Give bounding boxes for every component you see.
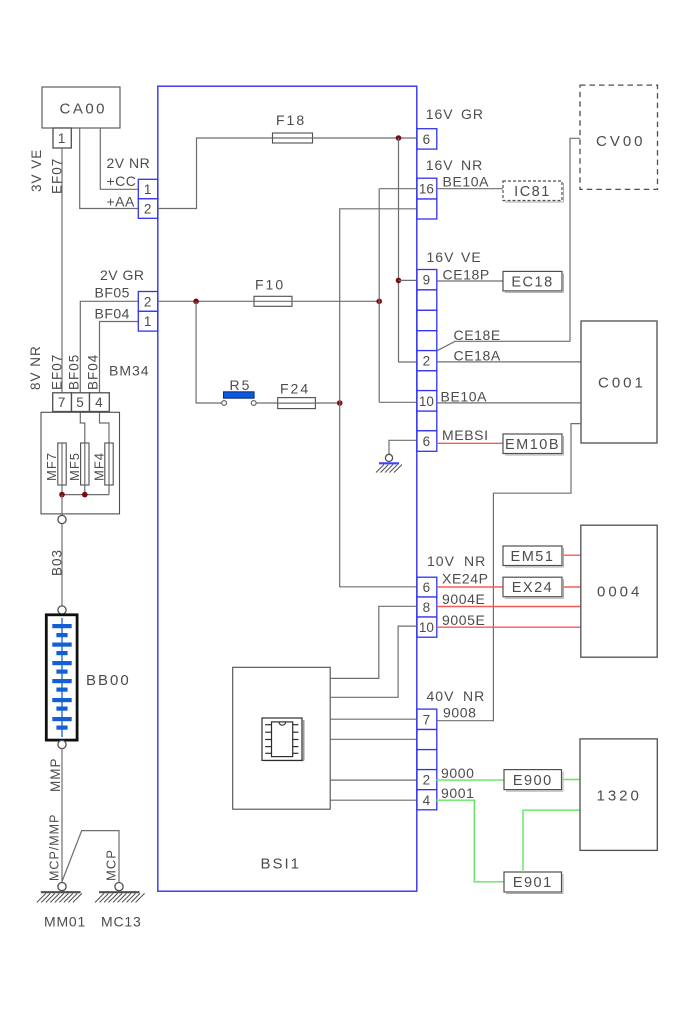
svg-text:2: 2: [144, 202, 152, 217]
svg-text:BF04: BF04: [86, 354, 101, 390]
connector circle above BB00: [58, 606, 66, 614]
BSI pin 6 MEBSI: [417, 431, 437, 452]
junction dot MF5 bus: [82, 492, 88, 498]
junction dot F24 output: [337, 400, 343, 406]
BSI pin 2 CE18A: [417, 351, 437, 371]
wire pin 9 to EC18: [437, 280, 503, 282]
svg-text:MM01: MM01: [44, 914, 86, 930]
wire C001 to pin 7 (40V NR 9008): [437, 424, 581, 721]
junction dot F10 right: [376, 299, 382, 305]
wire BF05 feed to fuse F10: [158, 300, 254, 302]
svg-text:MF4: MF4: [92, 452, 107, 481]
svg-text:8: 8: [423, 600, 431, 615]
svg-text:BE10A: BE10A: [441, 389, 488, 405]
wire module to pin 7 (9008): [330, 718, 417, 720]
svg-text:MC13: MC13: [101, 914, 142, 930]
fuse F10: [254, 296, 292, 306]
wire net 16V down to pin 2 (CE18A): [399, 138, 418, 362]
svg-text:XE24P: XE24P: [442, 571, 489, 587]
connector circle below BB00: [58, 740, 66, 748]
internal module box: [233, 667, 331, 809]
svg-text:4: 4: [95, 395, 103, 410]
wire R5 to fuse F24: [256, 402, 278, 404]
wire pin 10 to C001: [437, 402, 581, 404]
svg-text:C001: C001: [598, 375, 646, 392]
svg-text:BF04: BF04: [95, 306, 130, 322]
wire BM34 to connector circle: [61, 495, 63, 516]
svg-text:+CC: +CC: [107, 173, 137, 189]
BM34 pin 4: [90, 393, 110, 412]
svg-text:R5: R5: [230, 377, 252, 393]
wire module to pin 8 (9004E): [330, 606, 417, 678]
svg-text:10: 10: [419, 394, 434, 409]
svg-text:1: 1: [144, 182, 152, 197]
svg-text:IC81: IC81: [514, 184, 551, 200]
wire pin 4 to E901 (green): [436, 800, 504, 882]
svg-text:GR: GR: [461, 106, 484, 122]
svg-text:BB00: BB00: [86, 672, 131, 689]
shunt R5 contact left: [222, 401, 227, 406]
svg-text:F24: F24: [280, 381, 310, 397]
wire EF07 : CA00 pin1 down to BM34 pin 7: [61, 148, 63, 393]
wire MMP down to ground MM01: [61, 749, 63, 883]
svg-text:1: 1: [58, 131, 66, 146]
svg-text:CE18P: CE18P: [443, 267, 490, 283]
ground circle MM01: [58, 883, 66, 891]
fuse F24: [278, 398, 316, 409]
svg-text:2: 2: [423, 773, 431, 788]
svg-text:CE18E: CE18E: [454, 327, 501, 343]
ECU box BSI1: [158, 86, 417, 891]
fuse F18: [273, 133, 313, 143]
BM34 pin 5: [72, 393, 90, 412]
module C001: [581, 321, 657, 443]
BSI spare pin: [417, 290, 437, 310]
fuse MF4: [105, 443, 113, 485]
svg-text:8V NR: 8V NR: [28, 345, 43, 390]
wire CA00 to +CC (pin 1): [100, 128, 138, 189]
connector E900: [504, 770, 563, 792]
svg-text:10: 10: [419, 620, 434, 635]
BSI spare pin: [417, 199, 437, 219]
wire EM51 to 0004 (red): [564, 554, 581, 556]
svg-text:9001: 9001: [441, 785, 475, 801]
svg-text:40V: 40V: [427, 688, 455, 704]
wire pin 8 to 0004 (red): [437, 606, 581, 608]
wire branch MCP to ground MC13: [62, 831, 119, 883]
wire pin 16 to IC81: [437, 188, 503, 190]
fuse MF7: [58, 443, 66, 485]
wire B03 down to BB00: [61, 524, 63, 606]
wire F18 to pin 6 (16V GR): [313, 137, 418, 139]
connector IC81 (dashed): [503, 181, 564, 202]
svg-text:16V: 16V: [427, 249, 455, 265]
battery BB00: [46, 615, 77, 740]
svg-text:7: 7: [423, 712, 431, 727]
svg-text:E900: E900: [513, 773, 553, 789]
svg-text:F10: F10: [255, 277, 285, 293]
internal ground circle: [385, 454, 392, 461]
wire bus under BM34 fuses: [62, 485, 109, 495]
BSI pin 7 9008: [417, 709, 437, 729]
svg-text:2: 2: [423, 354, 431, 369]
chip icon: [262, 718, 304, 760]
junction dot at pin 9 branch: [396, 278, 402, 284]
connector E901: [504, 872, 563, 894]
svg-text:6: 6: [423, 580, 431, 595]
svg-text:BM34: BM34: [109, 363, 150, 379]
svg-text:9: 9: [423, 273, 431, 288]
svg-text:1320: 1320: [597, 788, 642, 805]
svg-text:16V: 16V: [426, 106, 454, 122]
connector circle below BM34: [58, 515, 66, 523]
wire F24 net down to pin 6 (XE24P): [340, 403, 417, 587]
wire BE10A net : pin 16 to pin 10: [379, 189, 417, 403]
ground symbol MC13: [95, 892, 145, 902]
module CV00 (dashed outline): [580, 85, 658, 189]
BSI pin 4 9001: [417, 790, 437, 810]
junction dot F10 left: [193, 299, 199, 305]
svg-text:VE: VE: [461, 249, 482, 265]
BSI pin 6 16V GR: [417, 129, 437, 149]
wire pin 2 to C001: [437, 361, 581, 363]
BSI spare pin: [417, 371, 437, 391]
module 1320: [580, 739, 657, 851]
svg-text:EF07: EF07: [50, 354, 65, 390]
BSI pin 2 (BF05): [138, 292, 158, 312]
wire branch down to shunt R5: [196, 301, 222, 403]
svg-text:1: 1: [144, 314, 152, 329]
wire pin 6 to EX24 (red): [437, 586, 503, 588]
svg-text:NR: NR: [461, 157, 483, 173]
svg-text:10V: 10V: [427, 553, 455, 569]
BSI pin 9 CE18P: [417, 270, 437, 290]
junction dot MF7 bus: [59, 492, 65, 498]
shunt R5 contact right: [251, 401, 256, 406]
svg-text:6: 6: [423, 434, 431, 449]
wire +AA feed to fuse F18: [158, 138, 273, 209]
ground symbol MM01: [37, 892, 82, 902]
svg-text:NR: NR: [464, 553, 486, 569]
connector EC18: [503, 271, 564, 292]
BSI pin 16 BE10A: [417, 178, 437, 199]
BSI pin 2 (+AA): [138, 199, 158, 219]
svg-text:2V NR: 2V NR: [107, 155, 151, 171]
wire module to spare pin: [330, 738, 417, 740]
connector EM51: [503, 546, 564, 567]
wire CV00 to pin 2 (CE18E): [437, 138, 580, 350]
wire EX24 to 0004 (red): [564, 586, 581, 588]
svg-text:E901: E901: [513, 875, 553, 891]
BSI pin 1 (+CC): [138, 179, 158, 199]
svg-text:BSI1: BSI1: [261, 856, 302, 873]
wire E900 to 1320 (green): [563, 779, 580, 781]
svg-text:BF05: BF05: [67, 354, 82, 390]
wire BF05 : pin 2 to BM34 fuse MF5: [80, 301, 138, 443]
svg-text:MCP/MMP: MCP/MMP: [48, 814, 62, 881]
wire pin 6 to EM10B (red): [437, 442, 503, 444]
svg-text:9000: 9000: [441, 765, 475, 781]
ground circle MC13: [115, 883, 123, 891]
internal ground symbol: [376, 463, 402, 472]
svg-text:MF5: MF5: [67, 452, 82, 481]
svg-text:MMP: MMP: [48, 758, 63, 793]
wire module to pin 10 (9005E): [330, 626, 417, 697]
svg-text:CA00: CA00: [60, 101, 108, 118]
wire module to pin 4 (9001): [330, 799, 417, 801]
wire pin 10 to 0004 (red): [437, 626, 581, 628]
svg-text:BF05: BF05: [95, 285, 130, 301]
svg-text:9005E: 9005E: [442, 612, 485, 628]
BSI pin 2 9000: [417, 770, 437, 790]
wire BF04 : pin 1 to BM34 fuse MF4: [100, 322, 139, 444]
shunt R5 blue strap: [224, 392, 255, 398]
wire 1320 to E901 (green): [523, 810, 580, 872]
svg-text:F18: F18: [276, 112, 306, 128]
svg-text:0004: 0004: [597, 584, 642, 601]
svg-text:9008: 9008: [443, 705, 477, 721]
BSI spare pin: [417, 730, 437, 750]
wire pin 2 to E900 (green): [436, 779, 504, 781]
svg-text:+AA: +AA: [107, 194, 136, 210]
CA00 pin 1: [53, 128, 71, 148]
BSI spare pin: [417, 310, 437, 330]
BSI pin 10 BE10A: [417, 391, 437, 412]
BSI spare pin: [417, 411, 437, 431]
svg-text:BE10A: BE10A: [443, 174, 490, 190]
svg-text:EM10B: EM10B: [505, 437, 560, 453]
BSI spare pin: [417, 331, 437, 351]
module 0004: [581, 525, 657, 657]
fusebox BM34 outline: [41, 412, 120, 514]
svg-text:5: 5: [76, 395, 84, 410]
wire module to pin 2 (9000): [330, 779, 417, 781]
BSI pin 8 9004E: [417, 597, 437, 617]
wire pin 6 MEBSI to internal ground: [389, 440, 417, 454]
BSI pin 1 (BF04): [138, 311, 158, 331]
svg-text:MF7: MF7: [44, 452, 59, 481]
connector EX24: [503, 577, 564, 598]
junction dot F18 output: [396, 135, 402, 141]
svg-text:CE18A: CE18A: [454, 348, 501, 364]
svg-text:7: 7: [58, 395, 66, 410]
svg-text:MCP: MCP: [104, 849, 119, 881]
BSI spare pin: [417, 750, 437, 770]
svg-text:6: 6: [423, 132, 431, 147]
svg-text:EM51: EM51: [511, 549, 555, 565]
connector EM10B: [503, 434, 564, 455]
BSI pin 6 XE24P: [417, 577, 437, 597]
svg-text:3V VE: 3V VE: [29, 149, 44, 192]
wire F10 to BE10A net: [292, 300, 379, 302]
svg-text:EC18: EC18: [511, 274, 553, 290]
svg-text:16V: 16V: [426, 157, 454, 173]
svg-text:16: 16: [419, 182, 434, 197]
svg-text:2: 2: [144, 294, 152, 309]
svg-text:CV00: CV00: [596, 133, 646, 150]
svg-text:EX24: EX24: [512, 580, 553, 596]
svg-text:NR: NR: [463, 688, 485, 704]
wire CA00 to +AA (pin 2): [80, 128, 139, 209]
BM34 pin 7: [53, 393, 72, 412]
svg-text:9004E: 9004E: [442, 591, 485, 607]
svg-text:MEBSI: MEBSI: [442, 427, 489, 443]
wire F24 to vertical net: [315, 402, 339, 404]
svg-text:2V GR: 2V GR: [100, 267, 145, 283]
wire branch to pin 9 (CE18P): [399, 279, 418, 281]
BSI pin 10 9005E: [417, 617, 437, 637]
fuse MF5: [81, 443, 89, 485]
svg-text:4: 4: [423, 793, 431, 808]
wire F24 net up to spare pin below 16: [340, 209, 417, 403]
connector CA00: [42, 87, 120, 128]
